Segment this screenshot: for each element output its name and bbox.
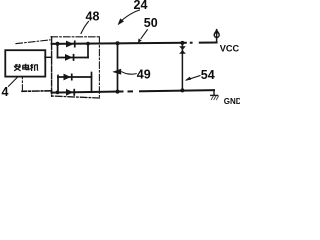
svg-text:54: 54 bbox=[201, 68, 215, 82]
svg-text:49: 49 bbox=[137, 67, 151, 81]
svg-text:GND: GND bbox=[224, 97, 240, 106]
svg-text:24: 24 bbox=[134, 0, 148, 12]
svg-text:48: 48 bbox=[86, 9, 100, 23]
svg-text:50: 50 bbox=[144, 16, 158, 30]
svg-text:VCC: VCC bbox=[220, 44, 240, 54]
svg-text:4: 4 bbox=[2, 85, 9, 99]
